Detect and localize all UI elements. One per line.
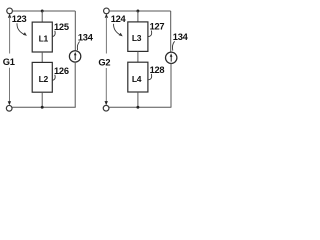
svg-text:134: 134 (78, 32, 94, 42)
wire (bus to L1) (41, 11, 43, 22)
svg-text:128: 128 (150, 65, 165, 75)
svg-text:124: 124 (111, 14, 127, 24)
wire (G2 branch lower) (105, 68, 107, 102)
label 134 (right) with leader (172, 32, 188, 50)
arrow down into bottom terminal (G1 branch) (8, 101, 11, 105)
label 125 with leader (52, 22, 68, 37)
svg-text:L4: L4 (132, 74, 142, 84)
label 124 with leader arrow (111, 14, 127, 36)
wire (right edge lower, right circuit) (170, 63, 172, 107)
wire (G2 branch upper) (105, 17, 107, 54)
svg-text:126: 126 (54, 66, 69, 76)
junction dot (bottom, L2 branch) (41, 106, 44, 109)
svg-text:134: 134 (173, 32, 189, 42)
wire (L4 to bottom bus) (137, 92, 139, 107)
wire (bottom bus, left circuit) (12, 106, 75, 108)
svg-text:G1: G1 (3, 57, 15, 67)
label 127 with leader (148, 22, 164, 37)
svg-text:125: 125 (54, 22, 69, 32)
svg-text:127: 127 (150, 22, 165, 32)
inductor L3 (128, 22, 148, 52)
svg-text:123: 123 (12, 14, 27, 24)
junction dot (bottom, L4 branch) (136, 106, 139, 109)
inductor L4 (128, 62, 148, 92)
current source 134 (right) (166, 52, 177, 63)
wire (bottom bus, right circuit) (109, 106, 171, 108)
wire (bus to L3) (137, 11, 139, 22)
label 126 with leader (52, 66, 68, 80)
junction dot (top, L1 branch) (41, 10, 44, 13)
wire (right edge upper, left circuit) (74, 11, 76, 51)
svg-text:L1: L1 (39, 34, 49, 44)
svg-text:L3: L3 (132, 33, 142, 43)
wire (L2 to bottom bus) (41, 92, 43, 107)
terminal (top-left node, right circuit) (104, 8, 110, 14)
arrow up into top terminal (G1 branch) (8, 14, 11, 18)
label 134 (left) with leader (77, 32, 93, 50)
arrow up into top terminal (G2 branch) (105, 14, 108, 18)
svg-text:G2: G2 (98, 57, 110, 67)
label 123 with leader arrow (12, 14, 27, 36)
inductor L1 (32, 22, 52, 52)
terminal (bottom-left node) (6, 105, 12, 111)
wire (right edge upper, right circuit) (170, 11, 172, 52)
terminal (bottom node, right circuit) (103, 105, 109, 111)
label 128 with leader (148, 65, 164, 80)
wire (G1 branch upper) (9, 17, 11, 54)
junction dot (top, L3 branch) (136, 10, 139, 13)
wire (L3 to L4) (137, 51, 139, 62)
terminal (top-left input node) (7, 8, 13, 14)
wire (top bus, left circuit) (12, 10, 75, 12)
wire (right edge lower, left circuit) (74, 62, 76, 107)
arrow down into bottom terminal (G2 branch) (105, 101, 108, 105)
wire (top bus, right circuit) (109, 10, 171, 12)
wire (L1 to L2) (41, 52, 43, 62)
wire (G1 branch lower) (9, 68, 11, 102)
inductor L2 (32, 62, 52, 92)
svg-text:L2: L2 (39, 74, 49, 84)
current source 134 (left) (69, 51, 80, 62)
